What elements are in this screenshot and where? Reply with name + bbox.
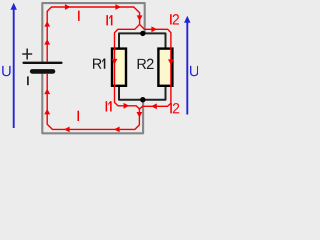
battery positive plate (long) (24, 62, 62, 64)
wire: red current path bottom (from merge, across bottom, up to battery) (47, 74, 139, 129)
label I bottom (78, 111, 80, 121)
label R of R1 (93, 59, 102, 69)
node: bottom junction dot (140, 97, 145, 102)
label 1 of I1 top (109, 15, 112, 25)
battery negative plate (short thick) (32, 69, 53, 74)
arrow up on left red wire (above battery) (44, 39, 50, 45)
resistor R2 (158, 49, 172, 86)
label R of R2 (138, 59, 147, 69)
arrow up on left red wire (lower-bottom) (44, 109, 50, 115)
arrow left on bottom red wire (left) (64, 127, 70, 133)
arrow down into R2 (I2) (168, 59, 174, 65)
wire: top black rail to R1/R2 (119, 33, 166, 47)
wire: outer gray loop lower part (battery down, bottom, bottom feed) (42, 72, 143, 134)
resistor R1 (112, 49, 126, 86)
label U left (2, 66, 10, 76)
voltage arrow U left (blue) (13, 9, 15, 128)
arrow up on left red wire (top) (44, 21, 50, 27)
node: top junction dot (140, 31, 145, 36)
label 1 of I1 bottom (108, 101, 111, 111)
arrow right on top red wire (I) (65, 4, 71, 10)
arrow down into R1 (I1) (112, 59, 118, 65)
wire: red current path top (from battery up, across top, down to split) (47, 7, 139, 62)
label I of I1 top (106, 15, 108, 25)
wire: bottom black rail from R1/R2 (119, 87, 166, 100)
label 2 of I2 bottom (173, 103, 179, 113)
label I of I2 bottom (170, 103, 172, 113)
label I of I1 bottom (106, 101, 108, 111)
battery minus mark (27, 76, 29, 85)
arrow left on I2 bottom branch (151, 103, 157, 109)
label I top (78, 11, 80, 21)
label I of I2 top (170, 14, 172, 24)
arrow up on left red wire (below battery) (44, 89, 50, 95)
arrow down on bottom center red wire (137, 112, 143, 118)
label U right (190, 66, 198, 76)
arrow right on I2 top branch (151, 26, 157, 32)
label 2 of R2 (147, 59, 154, 69)
voltage arrow U right (blue) (186, 22, 188, 115)
battery plus sign (22, 49, 32, 60)
label 2 of I2 top (173, 14, 179, 24)
wire: red current branch through R1 (115, 24, 140, 109)
arrow down on top center red wire (137, 15, 143, 21)
wire: outer gray loop upper part (top feed, top, left down to battery) (42, 3, 144, 62)
wire: red current branch through R2 (139, 24, 171, 109)
arrow left on bottom red wire (right) (114, 127, 120, 133)
label 1 of R1 (102, 59, 105, 69)
arrow right on top red wire (second) (115, 4, 121, 10)
arrow right on I1 bottom branch (124, 103, 130, 109)
